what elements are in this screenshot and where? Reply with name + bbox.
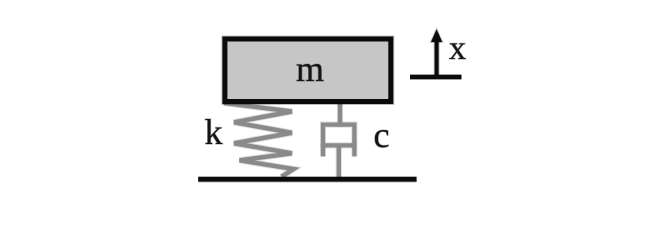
damper C bottom rod	[336, 145, 342, 179]
label m	[297, 64, 324, 81]
label c	[375, 130, 389, 147]
x arrow head	[431, 30, 442, 43]
mass m block	[225, 39, 391, 102]
x arrow shaft	[434, 40, 440, 77]
x axis base line	[410, 74, 462, 80]
ground line	[198, 176, 416, 183]
label k	[205, 119, 222, 144]
label x	[449, 43, 465, 59]
damper C piston	[321, 142, 357, 148]
damper C top rod	[337, 100, 343, 127]
spring k	[224, 103, 294, 177]
damper C cylinder cup	[323, 125, 354, 157]
